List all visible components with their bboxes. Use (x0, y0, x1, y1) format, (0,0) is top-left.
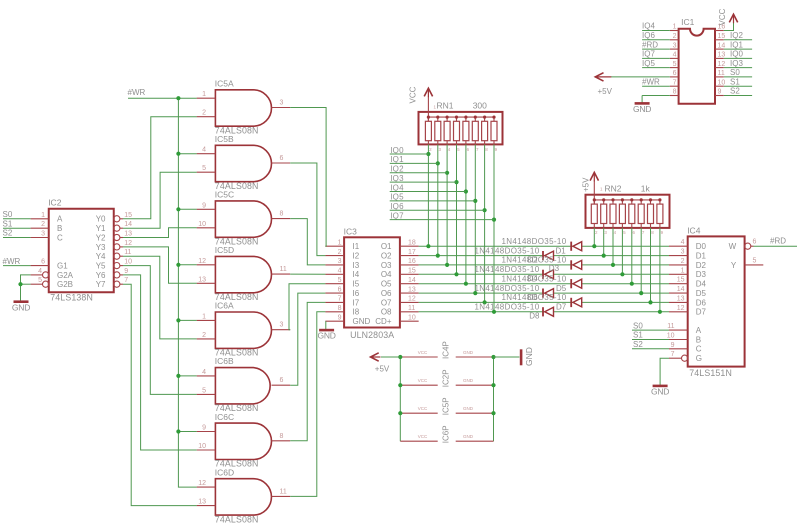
svg-text:D4: D4 (696, 280, 707, 289)
wire G2B to GND (21, 283, 31, 285)
svg-text:74LS151N: 74LS151N (689, 368, 732, 378)
wire #WR to IC5A pin1 (128, 97, 197, 99)
wire Y2 to IC5C pin2 (123, 228, 197, 238)
svg-text:IQ4: IQ4 (390, 183, 404, 192)
net label IQ2 at IC1 right (730, 31, 743, 40)
svg-text:IC6C: IC6C (215, 412, 234, 422)
svg-text:#RD: #RD (770, 237, 786, 246)
wire #WR to IC6A pin1 (178, 319, 196, 321)
svg-text:RN1: RN1 (437, 101, 454, 111)
net label IQ5 at IC1 left (642, 59, 655, 68)
wire IQ1 stub (390, 162, 438, 164)
svg-text:74LS138N: 74LS138N (50, 293, 93, 303)
resistor RN1 element 7 (484, 117, 486, 121)
svg-text:+5V: +5V (582, 177, 591, 192)
AND gate IC5A 74ALS08N (197, 79, 291, 136)
junction IQ1 tap (436, 161, 440, 165)
svg-text:7: 7 (338, 296, 342, 303)
wire row O7/D6 (419, 301, 669, 303)
svg-text:10: 10 (667, 333, 675, 340)
wire S2 into IC4 (632, 348, 669, 350)
junction power VCC tap (398, 383, 402, 387)
svg-text:300: 300 (473, 101, 487, 111)
svg-text:6: 6 (673, 70, 677, 77)
svg-text:12: 12 (718, 61, 726, 68)
svg-text:W: W (729, 242, 737, 251)
svg-text:IQ2: IQ2 (730, 31, 743, 40)
svg-text:GND: GND (463, 350, 474, 355)
svg-text:S1: S1 (730, 77, 740, 86)
wire Y1 to IC5B pin2 (123, 172, 197, 228)
svg-text:GND: GND (463, 378, 474, 383)
net label IQ7 (390, 211, 404, 220)
svg-text:16: 16 (408, 258, 416, 265)
junction RN1-row4 (454, 272, 458, 276)
junction #WR at IC5B (176, 152, 180, 156)
svg-text:#RD: #RD (642, 40, 658, 49)
resistor RN2 element 4 (621, 200, 623, 204)
wire IC3 pin9 to GND (325, 321, 327, 330)
svg-text:Y0: Y0 (96, 215, 106, 224)
wire RN1 pin5 down to row 4 (456, 144, 458, 274)
svg-text:I8: I8 (353, 308, 360, 317)
junction power GND tap (491, 355, 495, 359)
diode D7 1N4148DO35-10 (501, 293, 581, 307)
svg-text:I4: I4 (353, 270, 360, 279)
net label #RD at IC1 left (642, 40, 658, 49)
svg-text:5: 5 (38, 277, 42, 284)
svg-text:VCC: VCC (718, 8, 727, 25)
svg-text:IC5A: IC5A (215, 79, 234, 89)
svg-text:9: 9 (718, 89, 722, 96)
svg-text:4: 4 (338, 268, 342, 275)
svg-text:5: 5 (202, 165, 206, 172)
svg-text:IC5C: IC5C (215, 190, 234, 200)
diode D6 1N4148DO35-10 (474, 284, 553, 298)
svg-text:D3: D3 (696, 270, 707, 279)
svg-text:S2: S2 (3, 229, 13, 238)
wire power block GND feed (494, 356, 520, 358)
svg-text:IQ3: IQ3 (730, 59, 743, 68)
svg-text:10: 10 (124, 259, 132, 266)
junction RN2-row8 (658, 310, 662, 314)
svg-text:IC5P: IC5P (441, 397, 450, 415)
diode D8 1N4148DO35-10 (474, 303, 553, 317)
wire power block GND vertical (493, 357, 495, 441)
label D7 (556, 302, 567, 311)
wire #RD from IC4 W (754, 245, 798, 247)
junction IQ4 tap (464, 189, 468, 193)
svg-text:3: 3 (41, 231, 45, 238)
resistor RN2 element 5 (631, 200, 633, 204)
wire IC5C out to IC3 I3 (290, 219, 325, 265)
svg-text:10: 10 (198, 443, 206, 450)
svg-text:IQ5: IQ5 (642, 59, 655, 68)
wire VCC from IC1 pin16 (724, 23, 734, 31)
wire RN1 pin4 down to row 3 (446, 144, 448, 265)
svg-text:6: 6 (41, 259, 45, 266)
junction power VCC tap (398, 355, 402, 359)
svg-text:5: 5 (673, 61, 677, 68)
svg-text:4: 4 (673, 52, 677, 59)
svg-text:VCC: VCC (418, 378, 428, 383)
junction RN1-row7 (483, 300, 487, 304)
net label IQ0 (390, 146, 404, 155)
junction RN1-row8 (492, 310, 496, 314)
svg-text:+5V: +5V (375, 365, 390, 374)
svg-text:+5V: +5V (598, 87, 613, 96)
wire #WR vertical bus (178, 98, 196, 487)
svg-text:2: 2 (202, 332, 206, 339)
svg-text:IC2: IC2 (48, 198, 62, 208)
AND gate IC5D 74ALS08N (197, 245, 291, 302)
svg-text:G2B: G2B (57, 280, 73, 289)
wire IQ4 stub (390, 191, 466, 193)
svg-text:IC4P: IC4P (441, 341, 450, 359)
svg-text:13: 13 (198, 499, 206, 506)
svg-text:D1: D1 (696, 252, 707, 261)
svg-text:9: 9 (202, 425, 206, 432)
power pins IC2P (400, 369, 493, 387)
diode D4 1N4148DO35-10 (474, 265, 553, 279)
svg-text:S2: S2 (730, 87, 740, 96)
label D3 (549, 264, 560, 273)
wire power block VCC vertical (399, 357, 401, 441)
junction G2A/G2B tie (18, 282, 22, 286)
svg-text:6: 6 (280, 377, 284, 384)
junction RN1-row3 (445, 263, 449, 267)
svg-text:1N4148DO35-10: 1N4148DO35-10 (501, 237, 566, 246)
supply symbol +5V arrow at RN2 (590, 172, 598, 181)
svg-text:I3: I3 (353, 261, 360, 270)
wire IQ0 stub (390, 153, 429, 155)
junction #WR at IC5A (176, 96, 180, 100)
svg-text:I5: I5 (353, 280, 360, 289)
svg-text:Y1: Y1 (96, 224, 106, 233)
pin RN1 common to VCC (427, 97, 429, 112)
svg-text:Y: Y (731, 261, 737, 270)
wire IQ5 into IC1 pin5 (642, 67, 670, 69)
svg-text:IC1: IC1 (681, 17, 695, 27)
junction power GND tap (491, 383, 495, 387)
svg-text:D2: D2 (528, 255, 539, 264)
svg-text:1: 1 (202, 313, 206, 320)
svg-text:6: 6 (280, 155, 284, 162)
AND gate IC5B 74ALS08N (197, 134, 291, 191)
wire RN2 pin5 down to row 4 (621, 228, 623, 274)
svg-text:VCC: VCC (418, 350, 428, 355)
wire IQ3 from IC1 pin12 (724, 67, 752, 69)
svg-text:3: 3 (681, 249, 685, 256)
svg-text:1: 1 (673, 24, 677, 31)
svg-text:IC4: IC4 (687, 226, 701, 236)
svg-text:Y6: Y6 (96, 271, 106, 280)
svg-text:1N4148DO35-10: 1N4148DO35-10 (474, 284, 539, 293)
svg-text:IQ2: IQ2 (390, 165, 404, 174)
pin RN2 common to +5V (593, 181, 595, 195)
wire S0 into IC4 (632, 329, 669, 331)
wire IQ2 stub (390, 172, 447, 174)
junction IQ5 tap (473, 199, 477, 203)
svg-text:G1: G1 (57, 261, 68, 270)
wire Y0 to IC5A pin2 (123, 117, 197, 219)
wire #WR to IC5D pin1 (178, 264, 196, 266)
wire RN2 pin4 down to row 3 (612, 228, 614, 265)
junction RN1-row5 (464, 282, 468, 286)
svg-text:13: 13 (677, 295, 685, 302)
diode D3 1N4148DO35-10 (501, 256, 581, 270)
svg-text:#WR: #WR (128, 88, 146, 97)
wire Y5 to IC6B pin2 (123, 266, 197, 395)
svg-text:#WR: #WR (3, 257, 21, 266)
wire RN1 pin9 down to row 8 (493, 144, 495, 311)
wire IQ6 into IC1 pin2 (642, 39, 670, 41)
wire IC6D out to IC3 I8 (290, 312, 325, 497)
net label S2 at IC4 (633, 340, 643, 349)
wire S1 into IC4 (632, 339, 669, 341)
net label #RD at IC4 (770, 237, 786, 246)
supply symbol VCC arrow at IC1 (729, 14, 737, 23)
svg-text:Y2: Y2 (96, 233, 106, 242)
svg-text:G2A: G2A (57, 271, 74, 280)
svg-text:I1: I1 (353, 242, 360, 251)
svg-text:Y7: Y7 (96, 280, 106, 289)
svg-text:I6: I6 (353, 289, 360, 298)
svg-text:D1: D1 (556, 247, 567, 256)
wire RN2 pin9 down to row 8 (659, 228, 661, 312)
svg-text:C: C (57, 233, 63, 242)
svg-text:GND: GND (353, 317, 371, 326)
svg-text:12: 12 (198, 258, 206, 265)
wire Y3 to IC5D pin2 (123, 247, 197, 283)
svg-text:8: 8 (338, 305, 342, 312)
svg-text:GND: GND (463, 406, 474, 411)
label D1 (556, 247, 567, 256)
svg-text:11: 11 (280, 488, 287, 495)
svg-text:12: 12 (124, 240, 132, 247)
ground GND at power block (rotated) (521, 347, 534, 366)
svg-text:D3: D3 (549, 264, 560, 273)
svg-text:D5: D5 (556, 284, 567, 293)
net label #WR at IC2 (3, 257, 21, 266)
svg-text:1: 1 (681, 267, 685, 274)
wire IQ1 from IC1 pin14 (724, 48, 752, 50)
wire IC6A out to IC3 I5 (289, 284, 325, 330)
junction #WR at IC5D (176, 263, 180, 267)
svg-text:D2: D2 (696, 261, 707, 270)
svg-text:12: 12 (677, 305, 685, 312)
svg-text:14: 14 (718, 42, 726, 49)
wire #WR into IC2 (3, 265, 31, 267)
diode D2 1N4148DO35-10 (474, 246, 553, 260)
wire S0 from IC1 pin11 (724, 76, 752, 78)
wire RN1 pin2 down to row 1 (427, 144, 429, 246)
net label IQ1 (390, 155, 404, 164)
label D6 (528, 293, 539, 302)
wire row O6/D5 (419, 292, 669, 294)
svg-text:6: 6 (753, 239, 757, 246)
junction #WR at IC6A (176, 318, 180, 322)
AND gate IC6D 74ALS08N (197, 467, 291, 524)
wire #RD into IC1 pin3 (642, 48, 670, 50)
svg-text:GND: GND (524, 347, 534, 366)
svg-text:11: 11 (124, 249, 131, 256)
svg-text:2: 2 (338, 249, 342, 256)
svg-text:S2: S2 (633, 340, 643, 349)
ground GND at IC2 (12, 302, 30, 313)
net label #WR at gate column (128, 88, 146, 97)
svg-text:3: 3 (338, 258, 342, 265)
wire IC5B out to IC3 I2 (290, 163, 325, 256)
svg-text:9: 9 (202, 202, 206, 209)
svg-text:S0: S0 (730, 68, 740, 77)
svg-text:4: 4 (202, 369, 206, 376)
junction RN1-row1 (426, 244, 430, 248)
net label S0 at IC4 (633, 321, 643, 330)
svg-text:1N4148DO35-10: 1N4148DO35-10 (474, 246, 539, 255)
svg-text:10: 10 (408, 314, 416, 321)
junction RN1-row2 (436, 254, 440, 258)
wire IQ3 stub (390, 181, 457, 183)
junction IQ6 tap (483, 208, 487, 212)
svg-text:#WR: #WR (642, 77, 660, 86)
svg-text:12: 12 (408, 296, 416, 303)
svg-text:5: 5 (338, 277, 342, 284)
svg-text:5: 5 (753, 257, 757, 264)
svg-text:A: A (57, 215, 63, 224)
junction #WR at IC6B (176, 374, 180, 378)
svg-text:D8: D8 (529, 312, 540, 321)
svg-text:IQ7: IQ7 (642, 50, 655, 59)
svg-text:12: 12 (198, 480, 206, 487)
svg-text:7: 7 (124, 277, 128, 284)
svg-text:C: C (696, 345, 702, 354)
wire IC5D out to IC3 I4 (290, 273, 325, 275)
svg-text:1: 1 (41, 212, 45, 219)
svg-text:IQ5: IQ5 (390, 193, 404, 202)
svg-text:Y5: Y5 (96, 261, 106, 270)
svg-text:10: 10 (718, 79, 726, 86)
wire RN1 pin3 down to row 2 (437, 144, 439, 255)
wire RN2 pin3 down to row 2 (603, 228, 605, 256)
svg-text:3: 3 (280, 100, 284, 107)
svg-text:2: 2 (41, 221, 45, 228)
svg-text:O4: O4 (381, 270, 392, 279)
svg-text:IC2P: IC2P (441, 369, 450, 387)
svg-text:IC6D: IC6D (215, 467, 234, 477)
svg-text:D7: D7 (556, 302, 567, 311)
resistor RN2 element 6 (640, 200, 642, 204)
junction RN2-row6 (639, 291, 643, 295)
wire RN2 pin6 down to row 5 (631, 228, 633, 284)
wire IQ7 into IC1 pin4 (642, 57, 670, 59)
svg-text:9: 9 (124, 268, 128, 275)
power pins IC5P (400, 397, 493, 415)
wire RN2 pin2 down to row 1 (593, 228, 595, 246)
resistor network RN2 1k (586, 183, 670, 235)
svg-text:13: 13 (408, 286, 416, 293)
svg-text:O7: O7 (381, 298, 392, 307)
svg-text:VCC: VCC (418, 434, 428, 439)
svg-text:Y4: Y4 (96, 252, 106, 261)
svg-text:14: 14 (124, 221, 132, 228)
svg-text:18: 18 (408, 239, 416, 246)
svg-text:O8: O8 (381, 308, 392, 317)
net label #WR at IC1 left (642, 77, 660, 86)
net label IQ4 at IC1 left (642, 22, 655, 31)
wire row O8/D7 (419, 311, 669, 313)
svg-text:IC6P: IC6P (441, 425, 450, 443)
svg-text:8: 8 (673, 89, 677, 96)
wire power block +5V feed (381, 356, 400, 358)
svg-text:G: G (696, 354, 702, 363)
svg-text:IQ6: IQ6 (642, 31, 655, 40)
junction IQ3 tap (454, 180, 458, 184)
wire row O1/D0 (419, 245, 669, 247)
svg-text:S1: S1 (633, 331, 643, 340)
wire IC1 pin8 wire (642, 95, 670, 97)
wire RN2 pin8 down to row 7 (650, 228, 652, 303)
wire RN1 pin8 down to row 7 (484, 144, 486, 302)
wire IQ2 from IC1 pin15 (724, 39, 752, 41)
svg-text:3: 3 (280, 322, 284, 329)
net label IQ5 (390, 193, 404, 202)
svg-text:4: 4 (38, 268, 42, 275)
svg-text:1: 1 (202, 91, 206, 98)
wire IC1 pin8 drop (641, 96, 643, 104)
junction power GND tap (491, 411, 495, 415)
label D4 (528, 274, 539, 283)
wire S2 into IC2 (3, 237, 31, 239)
svg-text:D0: D0 (696, 242, 707, 251)
net label IQ3 at IC1 right (730, 59, 743, 68)
junction IQ0 tap (426, 152, 430, 156)
svg-text:GND: GND (463, 434, 474, 439)
net label IQ7 at IC1 left (642, 50, 655, 59)
svg-text:IC6A: IC6A (215, 301, 234, 311)
svg-text:O6: O6 (381, 289, 392, 298)
svg-text:S0: S0 (633, 321, 643, 330)
net label VCC rotated at IC1 (718, 8, 727, 25)
svg-text:IC3: IC3 (344, 226, 358, 236)
svg-text:CD+: CD+ (375, 317, 392, 326)
net label IQ6 at IC1 left (642, 31, 655, 40)
net label S1 at IC2 (3, 219, 13, 228)
label D5 (556, 284, 567, 293)
svg-text:IQ7: IQ7 (390, 211, 404, 220)
resistor RN1 element 5 (465, 117, 467, 121)
wire Y6 to IC6C pin2 (123, 275, 197, 450)
wire RN1 pin7 down to row 6 (474, 144, 476, 293)
wire #WR to IC5B pin1 (178, 153, 196, 155)
junction RN2-row2 (602, 254, 606, 258)
svg-text:15: 15 (408, 268, 416, 275)
junction RN2-row5 (630, 282, 634, 286)
net label S0 at IC2 (3, 210, 13, 219)
junction #WR at IC6C (176, 429, 180, 433)
net label IQ0 at IC1 right (730, 50, 743, 59)
net label IQ6 (390, 202, 404, 211)
svg-text:74ALS08N: 74ALS08N (215, 514, 259, 524)
svg-text:D4: D4 (528, 274, 539, 283)
net label S1 at IC1 right (730, 77, 740, 86)
svg-text:IQ0: IQ0 (730, 50, 743, 59)
net label VCC rotated (409, 86, 418, 103)
svg-text:15: 15 (718, 33, 726, 40)
net label S0 at IC1 right (730, 68, 740, 77)
wire IQ6 stub (390, 209, 485, 211)
svg-text:IQ1: IQ1 (730, 40, 743, 49)
